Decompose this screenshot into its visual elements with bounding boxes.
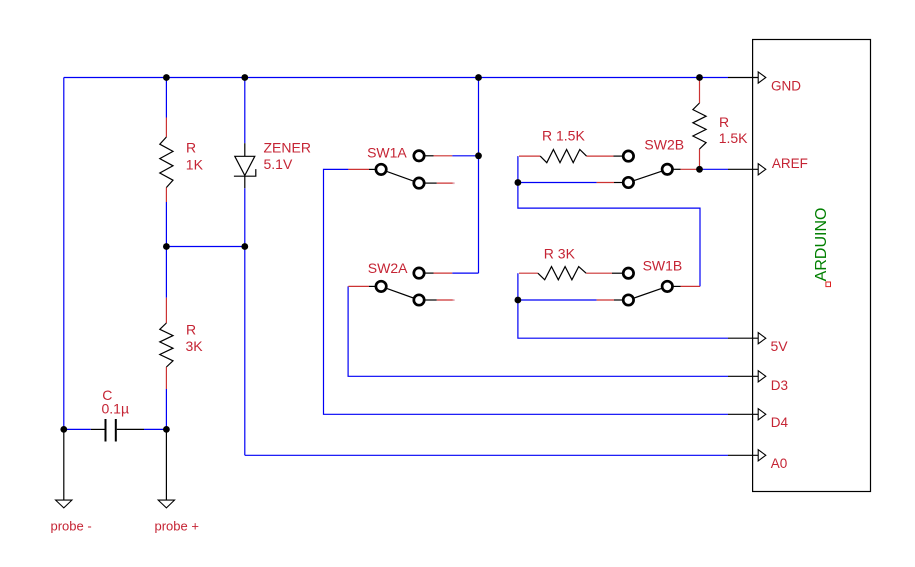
svg-text:SW2A: SW2A xyxy=(368,260,408,276)
svg-text:AREF: AREF xyxy=(772,156,808,171)
svg-text:R: R xyxy=(186,322,196,338)
svg-text:D3: D3 xyxy=(771,378,788,393)
svg-text:1.5K: 1.5K xyxy=(719,130,748,146)
svg-text:R 3K: R 3K xyxy=(544,245,576,261)
svg-text:probe +: probe + xyxy=(155,519,199,534)
svg-text:SW1A: SW1A xyxy=(367,144,407,160)
svg-text:5.1V: 5.1V xyxy=(264,156,293,172)
svg-text:5V: 5V xyxy=(771,338,789,354)
svg-text:A0: A0 xyxy=(771,456,788,471)
svg-text:R 1.5K: R 1.5K xyxy=(542,127,585,143)
svg-text:R: R xyxy=(186,140,196,156)
svg-text:0.1µ: 0.1µ xyxy=(102,400,130,416)
svg-text:1K: 1K xyxy=(186,156,204,172)
svg-text:GND: GND xyxy=(771,78,801,93)
svg-text:3K: 3K xyxy=(186,338,204,354)
svg-text:ZENER: ZENER xyxy=(264,140,311,156)
svg-text:SW1B: SW1B xyxy=(643,257,683,273)
svg-text:ARDUINO: ARDUINO xyxy=(813,208,830,282)
svg-text:R: R xyxy=(719,114,729,130)
svg-text:D4: D4 xyxy=(771,415,789,430)
svg-text:SW2B: SW2B xyxy=(644,137,684,153)
svg-text:probe -: probe - xyxy=(51,519,92,534)
